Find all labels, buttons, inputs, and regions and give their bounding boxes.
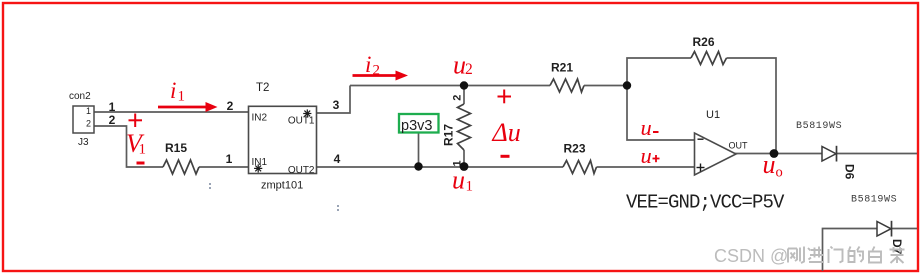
artifact dots [209,183,339,211]
svg-text:3: 3 [333,98,340,112]
char men [829,247,843,264]
svg-text:VEE=GND;VCC=P5V: VEE=GND;VCC=P5V [626,192,785,214]
svg-text:R21: R21 [551,61,573,75]
wire: R15 to T2 IN1 [199,166,249,168]
power label p3v3 [399,114,439,134]
annotation u2 [453,51,473,80]
watermark CJK glyphs [788,247,905,264]
svg-text:R17: R17 [442,124,456,146]
svg-text:T2: T2 [256,82,269,94]
op-amp U1 [695,109,749,175]
svg-text:IN2: IN2 [252,113,268,124]
svg-text:R23: R23 [564,142,586,156]
star marker OUT1 [303,109,311,117]
resistor R17 (vertical) [442,104,471,150]
svg-text:CSDN @: CSDN @ [714,246,788,266]
wire: inverting input u- [627,86,695,141]
char gang [788,247,804,264]
svg-text:1: 1 [178,89,186,105]
svg-text:u: u [641,143,652,168]
char de [849,247,864,263]
junction node p3v3 [414,162,422,170]
svg-text:i: i [170,78,176,103]
svg-text:i: i [365,52,371,77]
connector J3 con2 [69,91,94,148]
svg-text:Δu: Δu [492,118,521,147]
svg-text:1: 1 [226,152,233,166]
annotation arrow i1 [158,102,218,112]
diode D6 [796,121,857,180]
resistor R26 [691,35,727,65]
char cai [890,247,905,263]
svg-text:zmpt101: zmpt101 [261,180,303,192]
svg-text:2: 2 [109,113,116,127]
svg-text:D6: D6 [843,164,857,180]
svg-text:B5819WS: B5819WS [851,195,897,206]
wire: R26 right to output [727,58,777,154]
wire: op-amp output to D6 [735,153,822,155]
wire: feedback loop R26 [627,58,691,86]
annotation uo [763,150,783,181]
char jin [808,247,824,263]
svg-text:1: 1 [109,100,116,114]
svg-text:OUT1: OUT1 [288,116,315,127]
wire: bottom rail T2 pin4 to R23 [317,166,564,168]
svg-text:OUT2: OUT2 [288,165,315,176]
resistor R21 [550,61,584,93]
svg-text:o: o [776,165,783,181]
wire: D6 cathode to edge [837,153,918,155]
transformer T2 zmpt101 [249,82,317,192]
wire: D7 cathode to edge [892,228,918,230]
svg-text:J3: J3 [78,137,89,148]
star marker IN1 [254,164,262,172]
annotation i2 [365,52,380,79]
svg-text:2: 2 [86,119,91,129]
annotation minus V1 [137,162,145,165]
wire: connector pin1 to T2 IN2 [94,111,249,113]
svg-text:D7: D7 [890,239,904,255]
resistor R23 [563,142,597,174]
char bai [869,247,881,263]
svg-text:U1: U1 [706,109,720,121]
svg-text:R26: R26 [693,35,715,49]
annotation plus du [498,90,512,104]
wire: T2 pin3 riser [317,86,351,114]
svg-text:B5819WS: B5819WS [796,121,842,132]
wire: R23 to op-amp plus input [597,166,695,168]
annotation i1 [170,78,185,105]
diode D7 [851,195,904,255]
svg-text:4: 4 [334,152,341,166]
wire: R17 bottom lead [463,150,465,167]
wire: connector pin2 down [94,126,163,167]
svg-text:u: u [641,115,652,140]
svg-text:p3v3: p3v3 [401,118,432,134]
annotation plus V1 [129,114,143,128]
resistor R15 [163,141,199,174]
wire: top rail to R21 [350,85,550,87]
junction node uo [770,149,779,158]
svg-text:R15: R15 [165,141,187,155]
annotation arrow i2 [353,71,409,81]
wire: D7 branch riser [823,229,878,272]
junction node u- top [623,81,631,89]
svg-text:2: 2 [465,61,473,78]
annotation V1 [126,129,146,158]
wire: R21 to node u- junction [584,85,627,87]
wire: p3v3 stub [418,133,420,167]
svg-text:u: u [452,166,465,195]
svg-text:u: u [763,150,776,179]
svg-text:1: 1 [466,179,474,195]
junction node u2 [460,81,468,89]
annotation u-minus [641,115,659,140]
svg-text:2: 2 [227,99,234,113]
svg-text:2: 2 [452,95,464,101]
svg-text:1: 1 [139,142,147,158]
svg-text:1: 1 [86,106,91,116]
svg-text:con2: con2 [69,91,91,102]
wire: R17 top lead [463,86,465,105]
svg-text:OUT: OUT [729,141,749,151]
junction node u1 [460,162,469,171]
annotation minus du [501,155,510,158]
annotation u-plus [641,143,660,168]
annotation u1 [452,166,473,195]
